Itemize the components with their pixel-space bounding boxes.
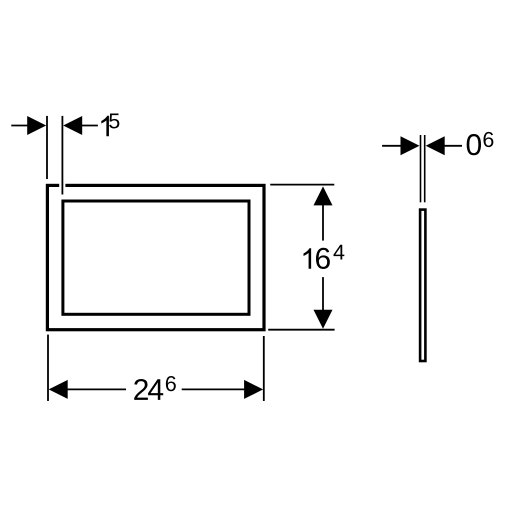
inner rectangle of plate (front view) — [63, 201, 249, 314]
gap in outer top edge where extension line passes — [59, 183, 65, 189]
dim 0-6: right-pointing arrow — [401, 136, 420, 155]
dim 24-6: left-pointing arrow — [49, 380, 68, 399]
outer rectangle of plate (front view) — [47, 185, 264, 329]
side view plate — [420, 210, 425, 361]
dim 16-4: bottom extension line — [268, 329, 334, 331]
dim 0-6: right stub line — [444, 145, 462, 147]
dim 1-5: extension line right — [61, 116, 63, 195]
dim 1-5: extension line left — [46, 116, 48, 179]
dim 0-6: extension line right — [424, 135, 426, 202]
dim 16-4: label text 16 — [304, 248, 312, 268]
dim 1-5: left-pointing arrow — [63, 116, 82, 135]
dim 0-6: superscript 6 — [483, 132, 493, 147]
dim 1-5: label text 1 — [101, 116, 109, 136]
dim 1-5: right-pointing arrow — [27, 116, 46, 135]
dim 0-6: left-pointing arrow — [426, 136, 445, 155]
dim 1-5: superscript 5 — [109, 114, 119, 129]
dim 24-6: right extension line — [263, 336, 265, 401]
dim 16-4: lower line segment — [322, 277, 324, 311]
dim 0-6: label text 0 — [467, 134, 481, 155]
dim 24-6: label digit 4 — [148, 379, 163, 400]
dim 24-6: left extension line — [47, 335, 49, 401]
dim 24-6: right line segment — [182, 388, 245, 390]
dim 16-4: label digit 6 — [316, 248, 330, 269]
dim 24-6: label text 24 — [134, 379, 148, 400]
dim 24-6: left line segment — [67, 388, 126, 390]
dim 24-6: superscript 6 — [166, 376, 176, 391]
dim 0-6: left stub line — [382, 145, 401, 147]
dim 1-5: left stub line — [11, 125, 28, 127]
dim 24-6: right-pointing arrow — [244, 380, 263, 399]
dim 16-4: top extension line — [270, 184, 334, 186]
dim 16-4: up arrow — [314, 186, 333, 205]
dim 1-5: right stub line — [81, 125, 98, 127]
dim 16-4: down arrow — [314, 310, 333, 329]
dim 16-4: upper line segment — [322, 204, 324, 241]
dim 16-4: superscript 4 — [333, 245, 344, 260]
dim 0-6: extension line left — [420, 135, 422, 202]
